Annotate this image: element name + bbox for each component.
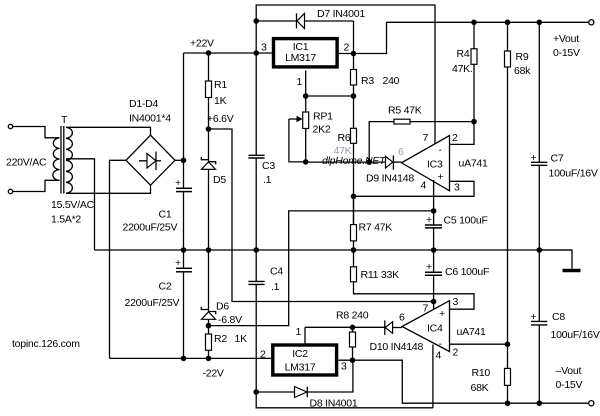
svg-text:C5 100uF: C5 100uF [444,215,488,227]
wire secondary top to bridge [66,127,151,135]
node C8 bottom [537,400,543,406]
node D5 on 0V rail [206,247,212,253]
op-amp IC4 [402,301,450,352]
wire RP1 node to D9 [306,161,386,163]
wire secondary center tap [66,159,95,250]
svg-text:+: + [175,177,181,189]
+Vout terminal [589,20,594,25]
svg-text:100uF/16V: 100uF/16V [551,329,600,341]
0V rail [95,249,573,251]
node C5 bottom on 0V rail [431,247,437,253]
op-amp IC2 LM317 [273,345,337,375]
wire IC4 pin4 [432,345,434,408]
svg-text:4: 4 [421,180,427,192]
resistor R9 [507,22,509,51]
svg-text:R9: R9 [516,51,529,63]
capacitor C6 [433,250,435,272]
svg-text:6: 6 [399,312,405,324]
-Vout terminal [589,401,594,406]
node R2 bottom [206,356,212,362]
svg-text:1K: 1K [214,95,227,107]
diode D8 [256,391,294,393]
svg-text:15.5V/AC: 15.5V/AC [51,199,95,211]
wire -22V rail [110,357,272,359]
svg-text:C3: C3 [262,160,275,172]
node D8 left [253,389,259,395]
svg-text:R7 47K: R7 47K [359,222,393,234]
zener D6 [208,250,210,312]
wire IC4 pin7 [433,302,435,310]
node pin1 [303,93,309,99]
svg-text:2: 2 [453,347,459,359]
zener D5 [208,129,210,162]
capacitor C2 [183,250,185,268]
svg-text:2: 2 [344,42,350,54]
svg-text:1.5A*2: 1.5A*2 [51,214,81,226]
svg-text:100uF/16V: 100uF/16V [549,168,598,180]
resistor R3 [353,54,355,70]
wire R8 node to D10 [305,326,385,328]
potentiometer RP1 [305,96,307,112]
capacitor C4 [255,250,257,281]
resistor R2 [208,326,210,334]
svg-text:240: 240 [383,75,400,87]
svg-text:-: - [439,144,443,156]
wire [13,180,60,191]
wire +DC vertical [183,53,185,188]
node RP1 bottom [303,159,309,165]
node R4 top [471,20,477,26]
svg-text:2200uF/25V: 2200uF/25V [125,297,180,309]
node R7 bottom [351,247,357,253]
svg-text:C2: C2 [159,281,172,293]
wire D8 bottom rail [256,392,433,408]
node C1 bottom on 0V rail [181,247,187,253]
wire IC3 pin2 [450,122,475,145]
svg-text:3: 3 [453,296,459,308]
resistor R7 [353,196,355,224]
node +6.6V [206,126,212,132]
transformer T core [60,126,62,194]
node pin2/R9/R10 [505,341,511,347]
svg-text:C1: C1 [159,209,172,221]
node -6.8V [206,323,212,329]
node D7 cathode [253,18,259,24]
svg-text:IC4: IC4 [427,323,443,335]
transformer T secondary winding [66,127,72,193]
svg-text:R3: R3 [361,75,374,87]
svg-text:+Vout: +Vout [553,33,579,45]
op-amp IC3 [402,136,450,191]
node pin3 return on R6/R7 line [351,194,357,200]
svg-text:0-15V: 0-15V [553,47,580,59]
capacitor C8 [538,250,540,321]
diode D7 [256,20,296,22]
node C5 top [431,208,437,214]
wire top rail from +22V node [256,5,435,144]
node R3 bottom [351,93,357,99]
svg-text:7: 7 [423,303,429,315]
wire IC3 pin4 [433,180,435,211]
svg-text:LM317: LM317 [285,362,316,374]
svg-text:68k: 68k [514,65,531,77]
svg-text:+: + [531,152,537,164]
svg-text:IC3: IC3 [427,159,443,171]
svg-text:uA741: uA741 [459,158,489,170]
svg-text:+22V: +22V [190,38,214,50]
capacitor C5 [425,224,442,226]
node IC1 pin2 [351,51,357,57]
svg-text:+: + [531,311,537,323]
wire IC2 pin3 to -Vout rail [339,360,590,403]
svg-text:R4: R4 [457,48,470,60]
svg-text:R5 47K: R5 47K [388,105,422,117]
svg-text:R1: R1 [214,79,227,91]
capacitor C3 [255,53,257,155]
resistor R1 [208,53,210,81]
svg-text:4: 4 [436,350,442,362]
wire IC4 pin2 [450,343,508,345]
svg-text:220V/AC: 220V/AC [6,157,47,169]
svg-text:C7: C7 [551,153,564,165]
svg-text:68K: 68K [471,382,489,394]
node C6 bottom [431,299,437,305]
svg-text:D8 IN4001: D8 IN4001 [310,398,358,410]
wire IC3 pin3 [353,181,474,196]
svg-text:D9 IN4148: D9 IN4148 [366,173,414,185]
svg-text:+: + [175,257,181,269]
wire IC2 pin1 [304,327,306,343]
resistor R11 [353,250,355,267]
svg-text:.1: .1 [263,174,272,186]
op-amp IC1 LM317 [274,39,338,67]
wire +22V rail [184,52,273,54]
wire secondary bottom to bridge [66,185,151,193]
resistor R10 [505,368,511,385]
wire +6.6V to op-amp supply [209,129,434,302]
diode D9 [386,156,393,168]
ground [537,247,543,253]
svg-text:IC2: IC2 [292,348,308,360]
resistor R6 [353,96,355,128]
wire bridge right vertex to +DC node [175,159,184,161]
svg-text:LM317: LM317 [285,52,316,64]
svg-text:T: T [61,114,68,126]
svg-text:+6.6V: +6.6V [207,113,234,125]
svg-text:D10 IN4148: D10 IN4148 [370,341,424,353]
wire bridge left vertex to -22V rail [110,160,127,358]
resistor R4 [473,22,475,49]
bridge rectifier D1-D4 diamond [126,135,175,185]
node R10 bottom [505,400,511,406]
RP1 wiper arrow [289,118,298,120]
transformer T input terminal bottom [8,189,12,193]
node C3 on 0V rail [253,247,259,253]
svg-text:C8: C8 [552,311,565,323]
svg-text:+: + [439,308,445,320]
svg-text:-6.8V: -6.8V [218,314,242,326]
wire IC1 pin1 [305,71,307,97]
svg-text:+: + [426,261,432,273]
wire pin1 to R3 [306,95,354,97]
svg-text:dlpHome.NET: dlpHome.NET [322,155,387,167]
svg-text:R11 33K: R11 33K [361,269,400,281]
svg-text:R2: R2 [214,333,227,345]
svg-text:topinc.126.com: topinc.126.com [12,338,80,350]
node R5 left [366,159,372,165]
wire to R5 [369,122,394,163]
svg-text:1: 1 [297,76,303,88]
svg-text:2200uF/25V: 2200uF/25V [123,222,178,234]
wire IC1 pin2 to +Vout rail [339,22,589,53]
svg-text:C6 100uF: C6 100uF [445,266,489,278]
svg-text:uA741: uA741 [457,326,487,338]
node R4/R5 [471,119,477,125]
svg-text:.1: .1 [271,281,280,293]
svg-text:+: + [438,171,444,183]
svg-text:C4: C4 [270,266,283,278]
node R8 bottom / IC2 pin3 [350,357,356,363]
svg-text:3: 3 [261,42,267,54]
svg-text:0-15V: 0-15V [556,379,583,391]
node +DC [181,158,187,164]
node C2 bottom on -22V rail [181,356,187,362]
transformer T primary winding [53,138,60,181]
resistor R8 [352,327,354,332]
resistor R5 [394,119,410,124]
svg-text:-22V: -22V [203,368,224,380]
svg-text:2K2: 2K2 [313,124,331,136]
svg-text:47K: 47K [334,145,352,157]
svg-text:2: 2 [260,349,266,361]
svg-text:–Vout: –Vout [556,365,582,377]
svg-text:D1-D4: D1-D4 [129,98,159,110]
node R1 top [206,50,212,56]
diode D10 [384,320,386,334]
svg-text:1: 1 [296,326,302,338]
svg-text:47K.: 47K. [452,63,473,75]
wire -6.8V to op-amp supply [209,211,434,326]
svg-text:D6: D6 [216,301,229,313]
svg-text:7: 7 [423,132,429,144]
transformer T input terminal top [8,124,12,128]
svg-text:3: 3 [341,361,347,373]
svg-text:D5: D5 [213,174,226,186]
wire [13,127,60,138]
svg-text:R10: R10 [472,367,491,379]
svg-text:+: + [426,214,432,226]
svg-text:6: 6 [398,146,404,158]
svg-text:R6: R6 [338,132,351,144]
svg-text:1K: 1K [235,333,248,345]
svg-text:R8 240: R8 240 [336,310,369,322]
svg-text:IN4001*4: IN4001*4 [129,113,171,125]
bridge inner diode [139,160,161,162]
svg-text:3: 3 [454,182,460,194]
svg-text:RP1: RP1 [313,111,333,123]
capacitor C7 [538,22,540,162]
capacitor C1 [176,187,192,189]
svg-text:D7 IN4001: D7 IN4001 [317,8,365,20]
node C3 line top [253,50,259,56]
svg-text:2: 2 [452,132,458,144]
node R9 top [505,20,511,26]
node R8 top [350,325,356,331]
